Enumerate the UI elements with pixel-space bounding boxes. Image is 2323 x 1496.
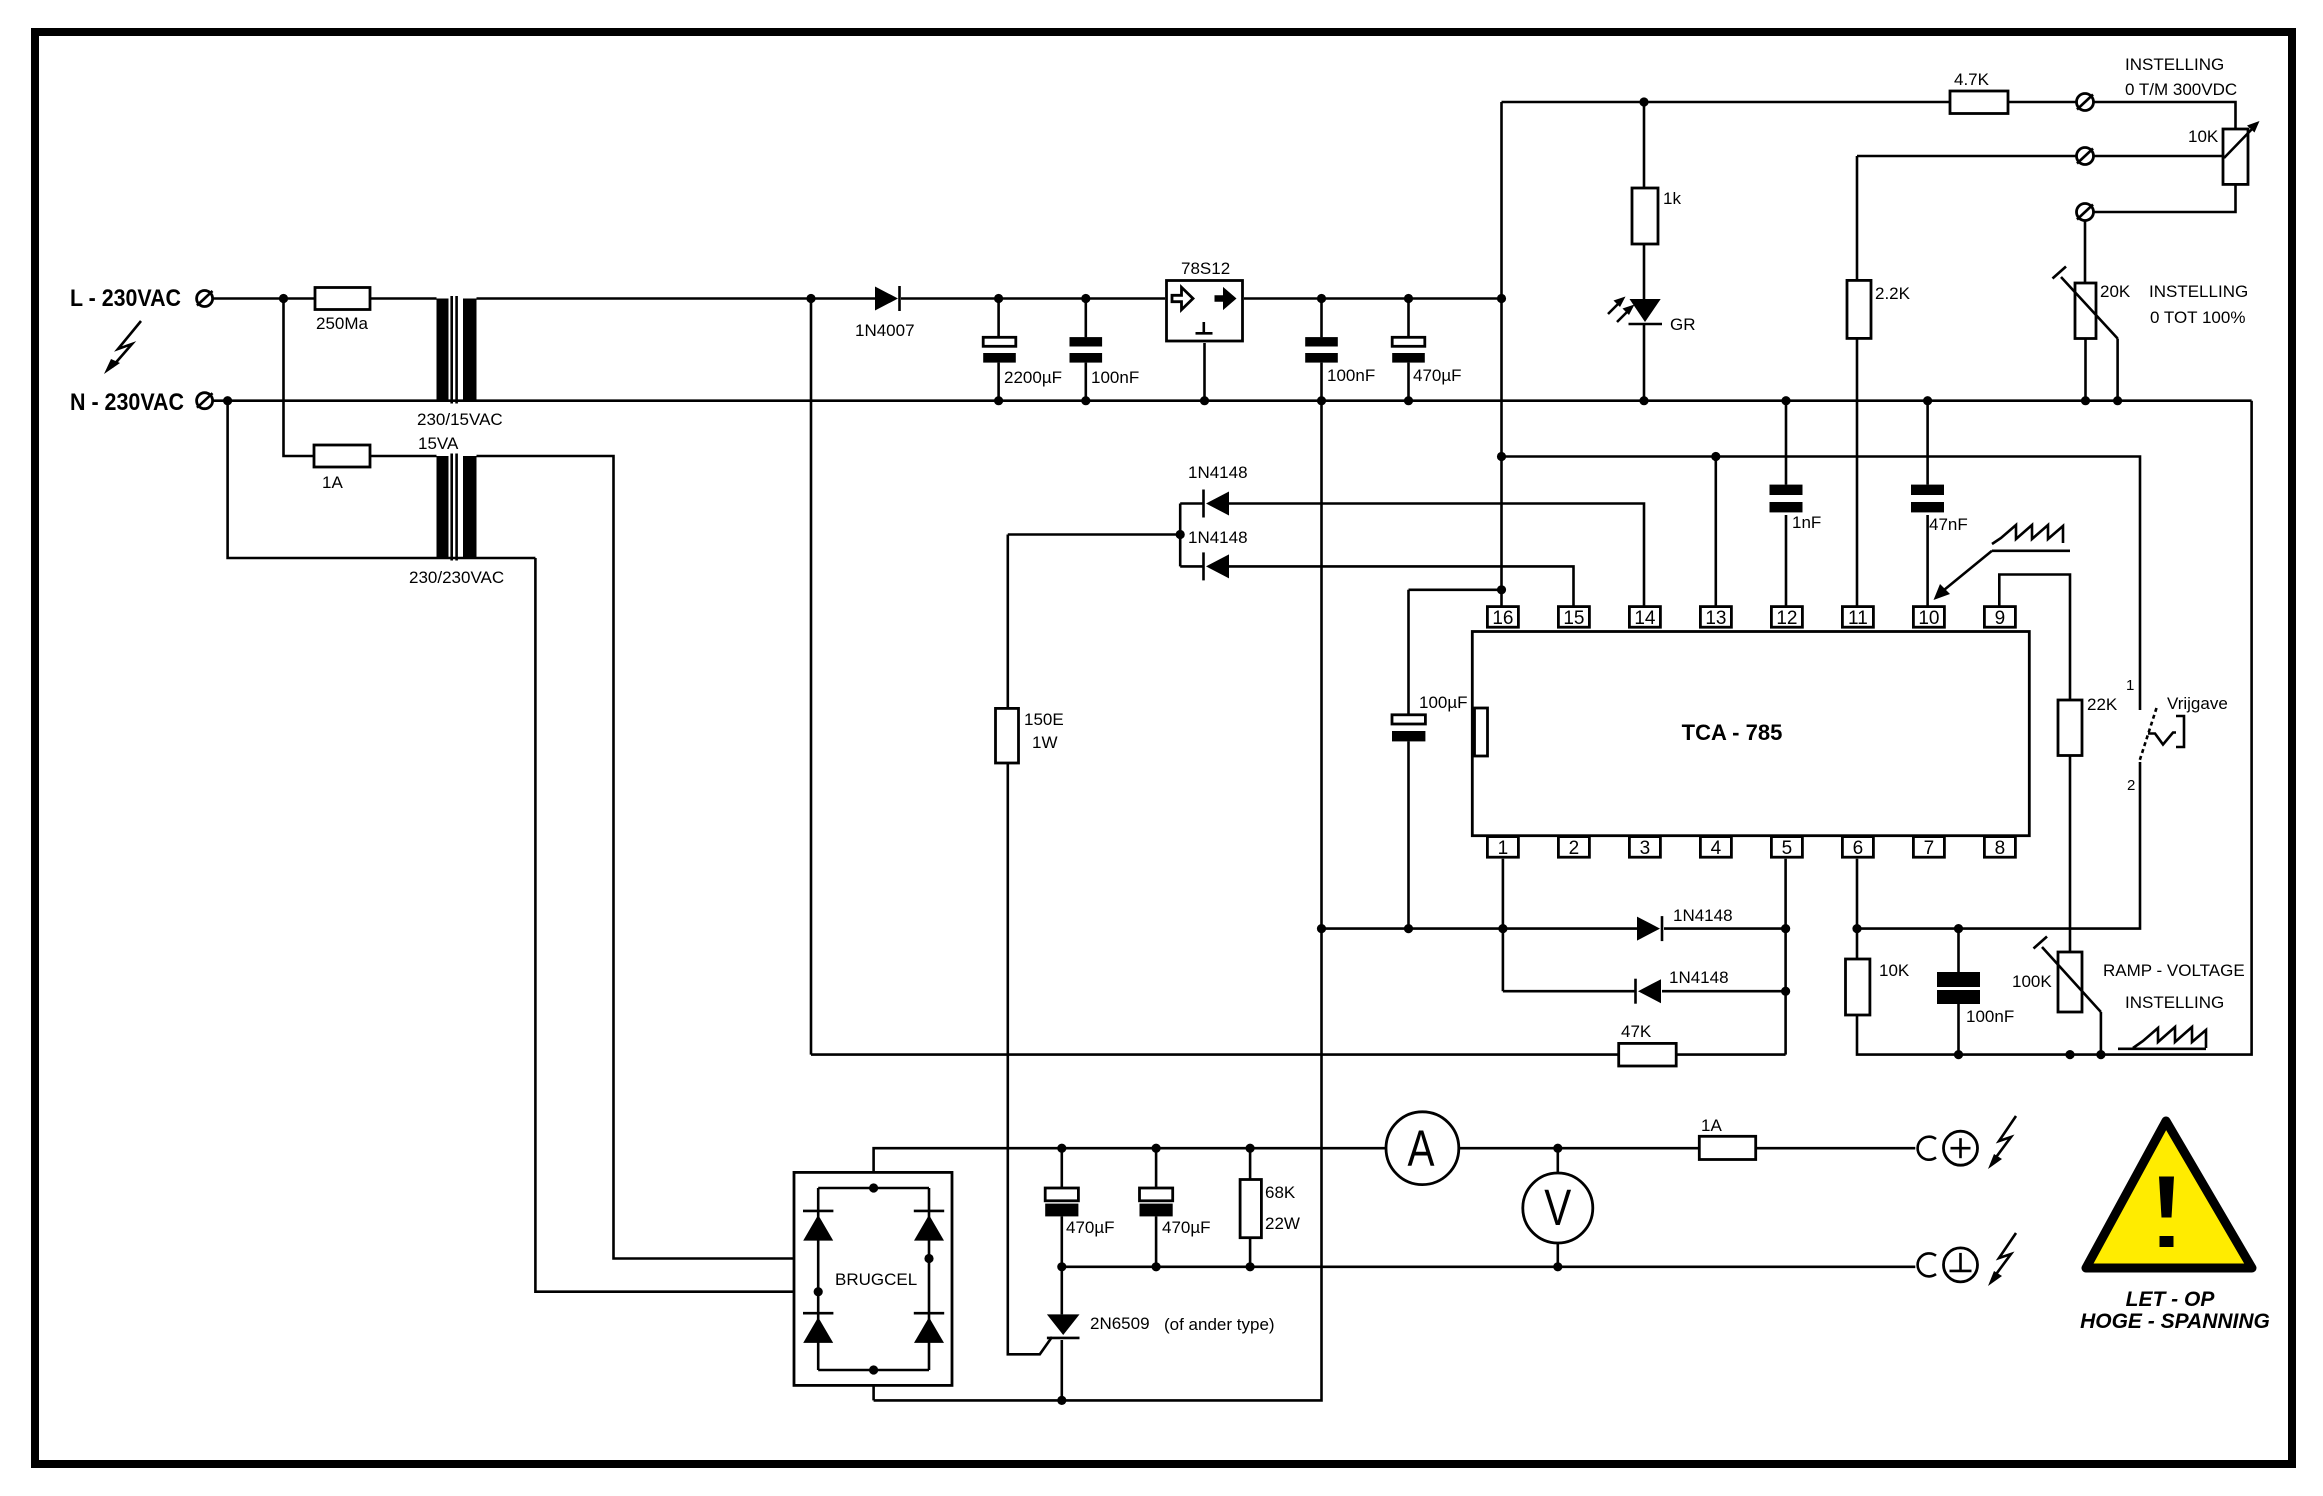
warning triangle <box>2086 1121 2252 1268</box>
wire 47K to pin 5 <box>1676 1053 1785 1056</box>
svg-text:230/230VAC: 230/230VAC <box>409 568 504 587</box>
svg-text:A: A <box>1408 1120 1435 1177</box>
wire 100nF-2 stems <box>1320 299 1323 338</box>
wire 1A fuse to transformer <box>370 455 437 458</box>
mains lightning bolt <box>104 321 141 374</box>
svg-text:1W: 1W <box>1032 733 1058 752</box>
svg-text:2.2K: 2.2K <box>1875 284 1911 303</box>
capacitor 47nF <box>1911 485 1944 513</box>
junction dot pin16 row <box>1497 585 1506 594</box>
resistor 47K <box>1619 1043 1677 1066</box>
svg-text:100µF: 100µF <box>1419 693 1468 712</box>
svg-text:6: 6 <box>1853 838 1864 859</box>
svg-text:L - 230VAC: L - 230VAC <box>70 285 181 312</box>
sawtooth symbol pin10 <box>1934 525 2071 600</box>
svg-text:10K: 10K <box>1879 961 1910 980</box>
svg-text:BRUGCEL: BRUGCEL <box>835 1270 917 1289</box>
wire thyristor stems <box>1061 1267 1064 1315</box>
wire 20K pot bottom stem <box>2084 339 2087 401</box>
svg-text:470µF: 470µF <box>1162 1218 1211 1237</box>
wire fuse to plus terminal <box>1756 1147 1916 1150</box>
svg-text:TCA - 785: TCA - 785 <box>1682 720 1783 745</box>
wire Vs column x1501 <box>1500 102 1503 607</box>
svg-text:78S12: 78S12 <box>1181 259 1230 278</box>
wire 100uF stems <box>1407 590 1410 715</box>
terminal L <box>197 291 213 307</box>
svg-text:20K: 20K <box>2100 282 2131 301</box>
wire top rail left <box>1502 101 1951 104</box>
wire Vrijgave contact2 to pin6 row <box>1857 762 2140 929</box>
svg-text:470µF: 470µF <box>1413 366 1462 385</box>
wire 230V secondary top to bridge right node <box>477 456 930 1259</box>
capacitor 470uF <box>1392 337 1425 362</box>
wire pin1 row y928 <box>1322 927 1638 930</box>
svg-text:4.7K: 4.7K <box>1954 70 1990 89</box>
pin numbers top <box>1492 608 2005 629</box>
svg-text:15: 15 <box>1563 608 1584 629</box>
wire LED to N <box>1643 324 1646 401</box>
svg-text:150E: 150E <box>1024 710 1064 729</box>
wire N rail <box>213 399 2252 402</box>
wire 47K rail left <box>811 1053 1619 1056</box>
potentiometer 20K <box>2053 267 2118 339</box>
wire 2.2K bottom to pin11 <box>1856 339 1859 607</box>
wire pin6 stem <box>1856 859 1859 959</box>
fuse 250Ma <box>315 288 370 310</box>
resistor 10K-b <box>1846 959 1870 1015</box>
svg-text:RAMP - VOLTAGE: RAMP - VOLTAGE <box>2103 961 2245 980</box>
svg-text:10: 10 <box>1918 608 1939 629</box>
svg-text:1: 1 <box>2126 677 2134 694</box>
wire 78S12 to pin16 column <box>1244 297 1502 300</box>
capacitor 1nF <box>1770 485 1803 513</box>
svg-text:22K: 22K <box>2087 695 2118 714</box>
diode 1N4007 <box>875 286 900 311</box>
bridge diode top-left <box>803 1211 833 1241</box>
junction dots bridge nodes <box>814 1183 934 1374</box>
wire 78S12 ground stem <box>1203 343 1206 401</box>
svg-text:8: 8 <box>1995 838 2006 859</box>
svg-text:1: 1 <box>1498 838 1509 859</box>
svg-text:INSTELLING: INSTELLING <box>2125 55 2224 74</box>
earth output lightning <box>1988 1233 2016 1286</box>
resistor 22K <box>2058 700 2082 756</box>
junction dot diode bracket <box>1176 530 1185 539</box>
svg-text:1N4148: 1N4148 <box>1188 528 1248 547</box>
wire minus rail y1266 <box>1062 1266 1916 1269</box>
sawtooth symbol ramp <box>2118 1027 2206 1049</box>
svg-text:250Ma: 250Ma <box>316 314 369 333</box>
resistor 150E <box>996 708 1019 763</box>
wire 100uF top row y589 <box>1409 588 1502 591</box>
capacitor 470uF-b1 <box>1045 1188 1078 1216</box>
diode 1N4148 lower-left <box>1204 552 1230 580</box>
wire A meter to fuse <box>1459 1147 1699 1150</box>
svg-text:10K: 10K <box>2188 127 2219 146</box>
svg-text:100K: 100K <box>2012 972 2052 991</box>
wire 150E top row y534 <box>1008 533 1180 536</box>
svg-text:2: 2 <box>2127 777 2135 794</box>
wire terminal to 10K pot top <box>2094 102 2236 129</box>
svg-text:1N4148: 1N4148 <box>1673 906 1733 925</box>
wire diode1 row to pin14 <box>1180 502 1203 505</box>
svg-text:0 TOT 100%: 0 TOT 100% <box>2150 308 2245 327</box>
junction dots N rail <box>223 396 2122 405</box>
plus output terminal <box>1944 1131 1978 1165</box>
resistor 2.2K <box>1847 280 1871 338</box>
svg-text:2N6509: 2N6509 <box>1090 1314 1150 1333</box>
wire pin1 drop to diode row y991 <box>1502 929 1505 992</box>
wire pin9 to 22K <box>1999 575 2070 701</box>
pin numbers bottom <box>1498 838 2006 859</box>
wire 20K wiper vertical <box>2116 339 2119 401</box>
wire 2200uF stems <box>997 299 1000 338</box>
svg-text:100nF: 100nF <box>1091 368 1139 387</box>
earth output terminal <box>1944 1248 1978 1282</box>
wire 10K bottom and right rail <box>1857 401 2252 1055</box>
svg-text:7: 7 <box>1924 838 1935 859</box>
svg-text:V: V <box>1544 1179 1571 1236</box>
svg-text:5: 5 <box>1782 838 1793 859</box>
junction dot diode4 row <box>1781 987 1790 996</box>
diode 1N4148 at y991 row <box>1636 979 1662 1004</box>
wire enable row y456 <box>1502 457 2141 711</box>
svg-text:2200µF: 2200µF <box>1004 368 1062 387</box>
svg-text:1N4148: 1N4148 <box>1188 463 1248 482</box>
capacitor 100uF <box>1392 715 1425 742</box>
wire 22K bottom to 100K pot <box>2069 756 2072 953</box>
svg-text:LET - OP: LET - OP <box>2126 1288 2216 1311</box>
bridge rectifier BRUGCEL box <box>794 1172 952 1385</box>
wire bridge bottom output <box>872 1370 875 1401</box>
wire 68K stems <box>1249 1148 1252 1179</box>
svg-text:INSTELLING: INSTELLING <box>2125 993 2224 1012</box>
capacitor 2200uF <box>983 337 1016 362</box>
wire wiper row y156 <box>1857 155 2077 158</box>
svg-text:470µF: 470µF <box>1066 1218 1115 1237</box>
junction dot 1k top <box>1639 97 1648 106</box>
wire pin1 stem <box>1502 859 1505 929</box>
diode 1N4148 at pin1 row <box>1637 916 1662 941</box>
wire 470uF-b1 stems <box>1061 1148 1064 1188</box>
plus output lightning <box>1988 1116 2016 1169</box>
wire 150E stems <box>1006 535 1009 709</box>
wire 1nF stems <box>1785 401 1788 485</box>
svg-text:1nF: 1nF <box>1792 513 1821 532</box>
plus output jaw <box>1918 1137 1936 1160</box>
svg-text:16: 16 <box>1492 608 1513 629</box>
switch Vrijgave <box>2140 708 2184 760</box>
bridge inner wires <box>818 1188 929 1370</box>
capacitor 470uF-b2 <box>1140 1188 1173 1216</box>
svg-text:1N4007: 1N4007 <box>855 321 915 340</box>
wire 100nF-b stems <box>1957 929 1960 972</box>
terminal inst1 <box>2077 94 2094 111</box>
svg-text:100nF: 100nF <box>1966 1007 2014 1026</box>
svg-text:9: 9 <box>1995 608 2006 629</box>
svg-text:2: 2 <box>1569 838 1580 859</box>
svg-text:N - 230VAC: N - 230VAC <box>70 389 184 416</box>
wire diode pair bracket <box>1179 504 1182 567</box>
svg-text:INSTELLING: INSTELLING <box>2149 282 2248 301</box>
capacitor 100nF-2 <box>1305 337 1338 363</box>
svg-text:3: 3 <box>1640 838 1651 859</box>
svg-text:0 T/M 300VDC: 0 T/M 300VDC <box>2125 80 2237 99</box>
IC pin boxes top <box>1487 607 2015 628</box>
wire 15V secondary to diode <box>477 297 876 300</box>
svg-text:47nF: 47nF <box>1929 515 1968 534</box>
junction dots bottom right rail <box>1954 1050 2106 1059</box>
regulator 78S12 <box>1167 281 1243 342</box>
svg-text:Vrijgave: Vrijgave <box>2167 694 2228 713</box>
wire L rail primary <box>213 297 437 300</box>
resistor 68K 22W <box>1240 1180 1261 1238</box>
wire diode to 78S12 <box>901 297 1165 300</box>
resistor 1k <box>1632 188 1658 244</box>
earth output jaw <box>1918 1253 1936 1276</box>
wire top rail right of 4.7K <box>2008 101 2077 104</box>
diode 1N4148 upper-left <box>1204 490 1230 518</box>
IC pin boxes bottom <box>1487 837 2015 858</box>
wire 2.2K top stem <box>1856 156 1859 280</box>
svg-text:GR: GR <box>1670 315 1696 334</box>
LED GR <box>1608 297 1662 325</box>
svg-text:HOGE - SPANNING: HOGE - SPANNING <box>2080 1310 2270 1333</box>
junction dots L rail <box>279 294 1506 303</box>
fuse 1A output <box>1699 1136 1755 1159</box>
bridge diode bottom-right <box>914 1313 944 1343</box>
fuse 1A <box>314 445 370 467</box>
transformer windings <box>437 296 477 561</box>
svg-text:(of ander type): (of ander type) <box>1164 1315 1275 1334</box>
wire terminal3 to 20K pot <box>2084 221 2087 284</box>
svg-text:14: 14 <box>1634 608 1656 629</box>
wire bridge top output <box>874 1148 1386 1188</box>
IC notch tab <box>1475 708 1488 756</box>
wire 47nF stems <box>1926 401 1929 485</box>
wire 230V secondary bottom to bridge left node <box>535 558 818 1292</box>
bridge diode bottom-left <box>803 1313 833 1343</box>
svg-text:68K: 68K <box>1265 1183 1296 1202</box>
svg-text:15VA: 15VA <box>418 434 459 453</box>
capacitor 100nF-b <box>1937 972 1980 1004</box>
junction dot thyristor cathode <box>1057 1396 1066 1405</box>
wire 15V rail down to 47K rail <box>810 299 813 1055</box>
wire N to transformer primary bottom <box>228 401 536 558</box>
svg-text:13: 13 <box>1705 608 1726 629</box>
junction dots pin1 row <box>1317 924 1963 933</box>
wire pin5 stem <box>1784 859 1787 1055</box>
ammeter A <box>1386 1112 1459 1185</box>
svg-text:11: 11 <box>1848 608 1868 629</box>
wire L fuse branch vertical <box>284 299 315 457</box>
IC TCA-785 body <box>1472 632 2029 836</box>
terminal N <box>197 393 213 409</box>
terminal inst2 <box>2077 148 2094 165</box>
junction dots enable row <box>1497 452 1721 461</box>
potentiometer 100K <box>2034 937 2101 1013</box>
wire 1k resistor stems <box>1643 102 1646 188</box>
junction dots minus rail <box>1057 1262 1562 1271</box>
wire 100K wiper drop <box>2100 1012 2103 1055</box>
svg-text:1A: 1A <box>1701 1116 1722 1135</box>
voltmeter V <box>1523 1173 1593 1243</box>
wire diode2 row to pin15 <box>1180 565 1203 568</box>
wire 100nF stems <box>1085 299 1088 338</box>
thyristor 2N6509 <box>1047 1314 1080 1338</box>
terminal inst3 <box>2077 204 2094 221</box>
svg-text:1N4148: 1N4148 <box>1669 968 1729 987</box>
wire 470uF stems <box>1407 299 1410 338</box>
wire ground column x1321 <box>874 401 1322 1401</box>
svg-text:100nF: 100nF <box>1327 366 1375 385</box>
svg-text:12: 12 <box>1776 608 1797 629</box>
potentiometer 10K <box>2223 121 2260 184</box>
resistor 4.7K <box>1950 91 2008 114</box>
capacitor 100nF <box>1070 337 1103 363</box>
wire 470uF-b2 stems <box>1155 1148 1158 1188</box>
svg-text:1k: 1k <box>1663 189 1681 208</box>
svg-text:22W: 22W <box>1265 1214 1300 1233</box>
wire pin13 stem <box>1715 457 1718 607</box>
wire V meter stems <box>1557 1148 1560 1173</box>
wire 10K pot bottom to terminal3 <box>2094 184 2236 212</box>
svg-text:4: 4 <box>1711 838 1722 859</box>
svg-text:230/15VAC: 230/15VAC <box>417 410 503 429</box>
svg-text:1A: 1A <box>322 473 343 492</box>
bridge diode top-right <box>914 1211 944 1241</box>
wire diode4 row y991 <box>1503 990 1636 993</box>
junction dots plus rail <box>1057 1144 1562 1153</box>
svg-text:47K: 47K <box>1621 1022 1652 1041</box>
